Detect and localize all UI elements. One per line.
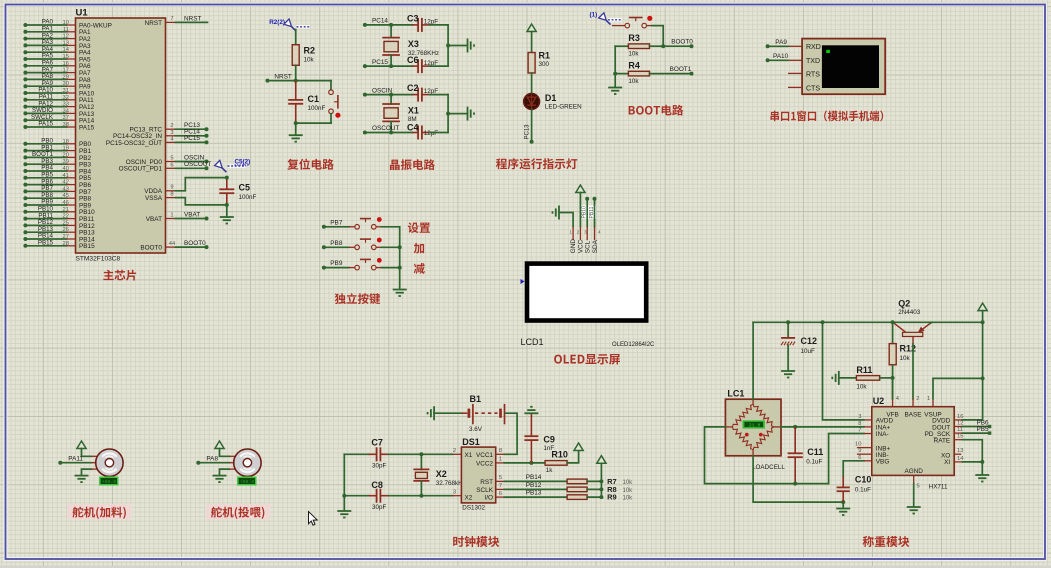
pullup bus wire to power xyxy=(600,464,602,497)
svg-text:100nF: 100nF xyxy=(239,194,257,201)
U2 pin XI (14) xyxy=(954,456,964,462)
junction OSCOUT/X1 xyxy=(389,131,393,135)
svg-text:R2: R2 xyxy=(304,46,316,56)
svg-text:21: 21 xyxy=(63,207,69,213)
svg-text:11: 11 xyxy=(957,427,963,433)
U1 pin PB0 (18) wire xyxy=(23,138,91,149)
wire C7 to X1 pin of DS1 xyxy=(389,453,453,455)
svg-text:3: 3 xyxy=(584,230,587,235)
resistor R10 1k xyxy=(545,450,579,474)
svg-text:3: 3 xyxy=(170,130,173,136)
U1 pin PB14 (27) wire xyxy=(23,233,95,244)
ground below RATE/XI xyxy=(975,475,989,482)
svg-text:8: 8 xyxy=(170,191,173,197)
ground below C10 xyxy=(836,502,850,516)
U2 pin XO (13) stub xyxy=(954,448,963,454)
svg-text:30pF: 30pF xyxy=(372,504,387,511)
U1 pin PC13_RTC (2) xyxy=(129,123,175,133)
svg-text:PA10: PA10 xyxy=(773,53,789,60)
label 减 xyxy=(414,263,425,274)
svg-text:10k: 10k xyxy=(623,496,634,502)
wire VDDA to C5 top xyxy=(176,178,227,191)
wire XI to ground xyxy=(962,462,982,474)
wire VBG to C10 xyxy=(843,461,864,477)
svg-text:37: 37 xyxy=(63,115,69,121)
terminal pin TXD xyxy=(788,59,802,61)
svg-text:DS1: DS1 xyxy=(462,437,480,447)
side ground X1 xyxy=(468,107,475,121)
junction rail/R12 xyxy=(891,320,895,324)
ground of BOOT circuit xyxy=(608,88,622,95)
U1 pin OSCIN_PD0 (5) xyxy=(126,156,176,166)
U2 pin INB+ (10) stub xyxy=(855,442,872,448)
svg-text:C10: C10 xyxy=(855,475,872,485)
wire net PB6 from DOUT xyxy=(962,420,991,429)
wire ground to OLED GND pin xyxy=(559,213,573,227)
U1 pin PB1 (19) wire xyxy=(23,144,91,155)
wire net NRST xyxy=(176,16,208,23)
U1 pin PC14-OSC32_IN (3) xyxy=(113,130,176,140)
junction C8/X2 bottom xyxy=(419,494,423,498)
svg-text:SCL: SCL xyxy=(585,240,592,253)
clock chip DS1 DS1302 xyxy=(461,437,495,512)
U1 pin PB11 (22) wire xyxy=(23,212,94,223)
svg-text:VBAT: VBAT xyxy=(184,211,200,218)
virtual terminal instrument xyxy=(802,39,885,95)
crystal X3 32.768KHz xyxy=(382,25,439,66)
svg-text:PC15: PC15 xyxy=(184,135,200,142)
U1 pin PA5 (15) wire xyxy=(23,53,91,64)
label 串口1窗口（模拟手机端） xyxy=(770,110,883,121)
U1 reference label xyxy=(76,8,89,19)
servo motor feeder-drop body xyxy=(229,449,261,476)
svg-text:R3: R3 xyxy=(628,33,640,43)
label 独立按键 xyxy=(335,293,380,304)
svg-text:31: 31 xyxy=(63,88,69,94)
power arrow for OLED VCC xyxy=(576,185,585,227)
LC1 right pin wire to INA+ xyxy=(774,426,864,428)
label 程序运行指示灯 xyxy=(496,158,577,169)
label 舵机(投喂) xyxy=(211,507,264,519)
U2 pin AGND (5) xyxy=(914,475,920,506)
svg-text:R1: R1 xyxy=(539,51,551,61)
wire to side ground X1 xyxy=(448,113,467,115)
servo motor feeder-fill angle readout xyxy=(99,477,118,486)
svg-text:LCD1: LCD1 xyxy=(521,337,544,347)
U1 pin PA0-WKUP (10) wire xyxy=(23,19,112,30)
U1 pin PA14 (37) wire xyxy=(23,114,94,125)
svg-text:PA11: PA11 xyxy=(68,455,83,462)
svg-text:R11: R11 xyxy=(856,365,872,375)
svg-text:3.6V: 3.6V xyxy=(469,426,483,433)
svg-text:B1: B1 xyxy=(470,394,482,404)
svg-text:BASE: BASE xyxy=(904,411,921,418)
wire node SCL xyxy=(585,197,589,227)
svg-text:7: 7 xyxy=(170,16,173,22)
U1 pin BOOT0 (44) xyxy=(140,241,176,252)
top power rail of weighing module xyxy=(753,321,932,323)
junction keys bus PB8 xyxy=(398,245,402,249)
push button SET (PB7) xyxy=(322,217,400,229)
svg-text:4: 4 xyxy=(598,230,601,235)
svg-text:7: 7 xyxy=(858,428,861,434)
LC1 green readout xyxy=(743,420,765,428)
side ground X3 xyxy=(468,39,475,53)
svg-text:30: 30 xyxy=(63,81,69,87)
svg-text:12: 12 xyxy=(957,421,963,427)
resistor R1 300 xyxy=(528,51,550,74)
svg-text:20: 20 xyxy=(63,152,69,158)
svg-text:+88.8: +88.8 xyxy=(240,479,255,485)
svg-text:RXD: RXD xyxy=(806,44,821,51)
ground below C12 xyxy=(781,371,795,378)
U1 pin VBAT (1) xyxy=(146,212,176,223)
ground below C5 xyxy=(220,217,234,224)
svg-text:C8: C8 xyxy=(371,480,383,490)
wire OSCIN row xyxy=(365,94,413,96)
svg-text:300: 300 xyxy=(539,61,550,68)
capacitor C5 100nF xyxy=(219,176,256,207)
DS1 pin X2 (3) xyxy=(452,490,461,496)
servo motor feeder-fill signal wire PA11 xyxy=(58,455,91,464)
svg-text:C12: C12 xyxy=(801,336,818,346)
svg-text:13: 13 xyxy=(957,448,963,454)
wire R1 to D1 xyxy=(531,73,533,94)
label 加 xyxy=(414,243,424,254)
U2 pin BASE (2) xyxy=(913,396,919,407)
resistor R8 10k xyxy=(567,485,633,494)
U1 pin PB4 (40) wire xyxy=(23,165,91,176)
LC1 bottom pin wire to ground bus xyxy=(753,450,843,502)
svg-text:45: 45 xyxy=(63,193,69,199)
junction rail/AVDD xyxy=(821,320,825,324)
U2 pin VSUP (1) xyxy=(927,378,983,406)
junction C7/X2 top xyxy=(419,452,423,456)
capacitor C6 12pF xyxy=(407,55,438,73)
svg-text:21.0: 21.0 xyxy=(749,423,761,429)
node OSCIN terminal xyxy=(363,87,393,96)
svg-text:41: 41 xyxy=(63,173,69,179)
svg-text:1: 1 xyxy=(570,230,573,235)
svg-text:C7: C7 xyxy=(371,438,383,448)
wire RATE to ground bus xyxy=(962,440,982,462)
svg-text:17: 17 xyxy=(63,68,69,74)
U1 value label STM32F103C8 xyxy=(76,256,121,263)
wire net VBAT xyxy=(176,211,209,220)
ground of reset circuit xyxy=(289,135,303,142)
resistor R12 10k xyxy=(889,322,916,398)
power arrow above R10 xyxy=(574,443,583,451)
svg-text:VCC1: VCC1 xyxy=(476,452,493,459)
svg-text:5: 5 xyxy=(170,156,173,162)
svg-text:8: 8 xyxy=(858,421,861,427)
svg-text:39: 39 xyxy=(63,159,69,165)
wire net PC15 xyxy=(176,135,209,144)
wire PC14 row xyxy=(365,24,413,26)
left bus of clock crystal xyxy=(343,454,345,510)
junction R11/R12/VFB xyxy=(891,376,895,380)
svg-text:RST: RST xyxy=(480,479,493,486)
svg-text:TXD: TXD xyxy=(806,58,820,65)
svg-text:11: 11 xyxy=(63,27,69,33)
wire net PA10 to TXD xyxy=(766,53,789,62)
svg-text:RATE: RATE xyxy=(934,438,951,445)
wire node SDA xyxy=(593,197,597,227)
svg-text:9: 9 xyxy=(170,185,173,191)
blue reference tag C5(2) with cursor xyxy=(215,159,251,173)
svg-text:C11: C11 xyxy=(807,447,823,457)
svg-text:38: 38 xyxy=(63,122,69,128)
ground of clock left bus xyxy=(337,511,351,518)
VCC arrow top right xyxy=(978,303,987,378)
bridge resistors inside LC1 xyxy=(732,404,774,450)
label background 舵机(加料) xyxy=(68,504,132,520)
svg-text:0.1uF: 0.1uF xyxy=(855,486,871,493)
svg-text:2: 2 xyxy=(170,123,173,129)
svg-text:I/O: I/O xyxy=(484,495,493,502)
crystal X1 8M xyxy=(382,95,419,133)
svg-text:PB5: PB5 xyxy=(977,426,990,433)
svg-text:PB15: PB15 xyxy=(79,243,95,250)
svg-text:26: 26 xyxy=(63,227,69,233)
svg-text:BOOT0: BOOT0 xyxy=(184,240,206,247)
svg-text:10k: 10k xyxy=(623,480,634,486)
svg-text:PB9: PB9 xyxy=(330,260,343,267)
svg-text:19: 19 xyxy=(63,146,69,152)
svg-text:10k: 10k xyxy=(623,488,634,494)
svg-text:10uF: 10uF xyxy=(801,348,816,355)
svg-text:10: 10 xyxy=(855,442,861,448)
svg-text:X1: X1 xyxy=(465,452,473,459)
wire VCC2 to R10 and C9 xyxy=(504,462,545,464)
svg-text:PA15: PA15 xyxy=(79,124,95,131)
U1 pin PA8 (29) wire xyxy=(23,73,91,84)
svg-text:PC15-OSC32_OUT: PC15-OSC32_OUT xyxy=(106,140,162,147)
junction rail/C12 xyxy=(786,320,790,324)
svg-text:C3: C3 xyxy=(407,13,419,23)
power arrow above R1 xyxy=(527,24,536,53)
LC1 wiper contacts xyxy=(745,433,763,437)
label 复位电路 xyxy=(287,159,333,170)
svg-text:34: 34 xyxy=(63,108,70,114)
svg-text:R10: R10 xyxy=(551,450,568,460)
svg-text:X1: X1 xyxy=(408,105,419,115)
svg-text:12: 12 xyxy=(63,34,69,40)
svg-text:VSSA: VSSA xyxy=(145,195,163,202)
capacitor C10 0.1uF xyxy=(837,475,872,503)
OLED model label xyxy=(612,342,655,348)
svg-text:PB13: PB13 xyxy=(526,490,542,497)
U1 pin NRST (7) xyxy=(145,16,176,27)
svg-text:10: 10 xyxy=(63,20,69,26)
U2 pin INA+ (8) xyxy=(858,421,872,427)
DS1 pin RST (5) xyxy=(496,475,505,481)
U1 pin PB13 (26) wire xyxy=(23,226,95,237)
U1 pin PB10 (21) wire xyxy=(23,206,95,217)
svg-text:C9: C9 xyxy=(543,434,555,444)
svg-text:0.1uF: 0.1uF xyxy=(806,458,822,465)
servo motor feeder-drop ground xyxy=(213,469,230,483)
svg-text:33: 33 xyxy=(63,102,69,108)
svg-text:6: 6 xyxy=(499,491,502,497)
U1 pin VDDA (9) xyxy=(144,185,175,196)
svg-text:10k: 10k xyxy=(900,355,911,362)
wire to side ground X3 xyxy=(448,45,467,47)
U2 pin DVDD (16) xyxy=(954,414,963,420)
U1 pin PB3 (39) wire xyxy=(23,158,91,169)
svg-text:100nF: 100nF xyxy=(308,105,326,112)
label 称重模块 xyxy=(863,536,910,547)
svg-text:DS1302: DS1302 xyxy=(462,505,485,512)
wire R3-R4 left bus xyxy=(614,46,616,86)
svg-text:15: 15 xyxy=(957,434,963,440)
U1 pin PB8 (45) wire xyxy=(23,192,91,203)
svg-text:LOADCELL: LOADCELL xyxy=(752,464,785,471)
ground below AGND xyxy=(907,507,921,514)
wire net BOOT1 right xyxy=(650,66,694,76)
junction C11 bottom bus xyxy=(793,482,797,486)
keys common bus wire xyxy=(399,227,401,288)
wire net PB5 from PD_SCK xyxy=(962,426,991,435)
svg-text:R9: R9 xyxy=(607,493,617,502)
svg-text:1k: 1k xyxy=(546,467,554,474)
wire right bus of X3 circuit xyxy=(447,25,449,66)
capacitor C4 12pF xyxy=(407,122,438,139)
svg-text:PA15: PA15 xyxy=(38,121,53,128)
node PC14 terminal xyxy=(363,18,389,27)
wire net BOOT0 right xyxy=(663,38,693,48)
wire net BOOT0 xyxy=(176,240,209,249)
ground of keys xyxy=(393,290,407,297)
U1 pin PA1 (11) wire xyxy=(23,26,91,37)
svg-text:PB12: PB12 xyxy=(526,482,542,489)
servo motor feeder-drop angle readout xyxy=(237,477,256,486)
servo motor feeder-fill ground xyxy=(75,469,92,483)
U2 pin VBG (6) xyxy=(858,455,872,461)
svg-text:13: 13 xyxy=(63,40,69,46)
LCD1 reference label xyxy=(521,337,544,347)
svg-text:2: 2 xyxy=(577,230,580,235)
wire battery to DS1 VCC1 xyxy=(504,413,517,454)
svg-text:10k: 10k xyxy=(628,51,639,58)
label 晶振电路 xyxy=(390,159,435,170)
rotated net labels PB10 PB11 xyxy=(582,206,597,220)
wire net OSCOUT xyxy=(176,161,212,170)
U1 pin VSSA (8) xyxy=(145,191,176,202)
DS1 pin VCC1 (8) xyxy=(496,448,505,454)
U2 pin INB- (9) stub xyxy=(857,448,872,454)
svg-text:5: 5 xyxy=(917,484,920,490)
resistor R4 10k xyxy=(615,61,649,85)
U1 pin PA13 (34) wire xyxy=(23,107,94,118)
svg-text:VCC: VCC xyxy=(578,239,585,253)
svg-text:43: 43 xyxy=(63,186,69,192)
U2 pin INA- (7) xyxy=(858,428,872,434)
svg-text:46: 46 xyxy=(63,200,69,206)
svg-text:SDA: SDA xyxy=(592,239,599,253)
junction rail/VCC stem xyxy=(981,320,985,324)
junction X3 bus xyxy=(446,44,450,48)
wire net PA9 to RXD xyxy=(766,39,788,48)
U1 pin PA9 (30) wire xyxy=(23,80,91,91)
LC1 top pin wire to rail xyxy=(752,322,754,404)
label 主芯片 xyxy=(103,270,136,281)
svg-text:XI: XI xyxy=(944,459,950,466)
svg-text:10k: 10k xyxy=(304,57,315,64)
label OLED显示屏 xyxy=(554,354,620,365)
svg-text:C4: C4 xyxy=(407,122,419,132)
svg-text:X2: X2 xyxy=(465,495,473,502)
capacitor C11 0.1uF xyxy=(788,427,824,484)
svg-text:D1: D1 xyxy=(545,93,557,103)
svg-text:22: 22 xyxy=(63,214,69,220)
svg-text:OSCOUT: OSCOUT xyxy=(184,161,211,168)
wire net PC13 xyxy=(176,122,209,131)
LC1 left pin wire to bottom bus xyxy=(705,427,829,484)
wire net PB12 xyxy=(504,482,567,489)
wire OSCOUT row xyxy=(365,132,413,134)
HX711 chip U2 body xyxy=(872,396,954,491)
reset push button xyxy=(329,81,341,124)
U1 pin PA11 (32) wire xyxy=(23,94,94,105)
wire AVDD to rail xyxy=(823,322,864,420)
svg-text:GND: GND xyxy=(570,239,577,254)
svg-text:INA-: INA- xyxy=(876,431,889,438)
junction C1 bottom xyxy=(294,121,298,125)
wire PC15 row xyxy=(365,65,413,67)
label 设置 xyxy=(408,222,430,233)
svg-text:C1: C1 xyxy=(308,94,320,104)
servo motor feeder-drop VCC power arrow xyxy=(215,441,230,456)
wire button to BOOT0 row xyxy=(652,26,663,47)
DS1 pin X1 (2) xyxy=(452,448,461,454)
junction pullup R7 xyxy=(599,479,603,483)
junction R3/button/BOOT0 xyxy=(661,44,665,48)
svg-text:9: 9 xyxy=(858,448,861,454)
wire net PB14 xyxy=(504,474,567,481)
junction left bus C8 row xyxy=(342,494,346,498)
wire emitter rail segment xyxy=(932,321,983,323)
svg-text:PB15: PB15 xyxy=(38,240,54,247)
svg-text:C6: C6 xyxy=(407,55,419,65)
svg-text:15: 15 xyxy=(63,54,69,60)
capacitor C12 10uF polarized xyxy=(781,322,817,370)
svg-text:Q2: Q2 xyxy=(898,299,910,309)
U1 pin PC15-OSC32_OUT (4) xyxy=(106,136,176,146)
U2 pin RATE (15) xyxy=(954,434,963,440)
U1 pin PB6 (42) wire xyxy=(23,178,91,189)
svg-text:14: 14 xyxy=(63,47,70,53)
wire DVDD to VCC stem xyxy=(962,378,982,420)
transistor Q2 2N4403 xyxy=(894,299,932,399)
U1 pin PB5 (41) wire xyxy=(23,172,91,183)
servo motor feeder-drop signal wire PA8 xyxy=(196,455,229,464)
capacitor C1 100nF xyxy=(288,81,325,124)
svg-text:1: 1 xyxy=(170,212,173,218)
capacitor C3 12pF xyxy=(407,13,438,32)
svg-text:PA8: PA8 xyxy=(206,455,218,462)
blue reference tag R2(2) with cursor xyxy=(269,19,310,31)
svg-text:VBG: VBG xyxy=(876,459,890,466)
U1 pin PA12 (33) wire xyxy=(23,100,94,111)
svg-text:16: 16 xyxy=(63,61,69,67)
DS1 pin VCC2 (1) xyxy=(496,457,505,463)
svg-text:X2: X2 xyxy=(436,469,447,479)
U1 pin PA15 (38) wire xyxy=(23,121,94,132)
wire net PB13 xyxy=(504,490,567,497)
svg-text:SCLK: SCLK xyxy=(476,487,493,494)
push button MINUS (PB9) xyxy=(322,258,400,270)
